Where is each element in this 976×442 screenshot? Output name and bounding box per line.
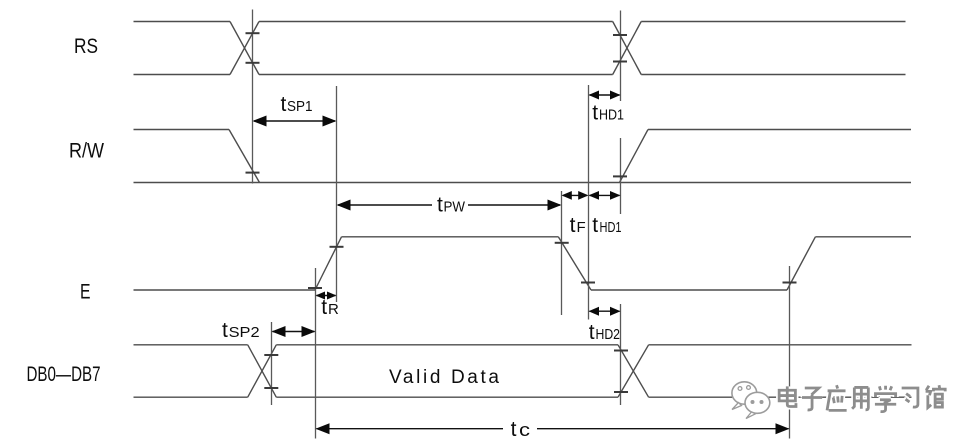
svg-text:Valid Data: Valid Data (389, 367, 499, 388)
node tick RS X2 upper (613, 34, 627, 36)
node tSP2 left arrowhead (272, 326, 286, 337)
wire RS top-left rail (134, 21, 231, 23)
node tick DB X2 lower (614, 391, 628, 393)
wire DB top-mid rail (276, 344, 618, 346)
wire RW rising edge (620, 130, 649, 183)
node tick RW fall (246, 172, 260, 174)
node tHD1 upper left arrowhead (589, 91, 600, 100)
node tHD2 right arrowhead (610, 307, 621, 316)
node V8 measure line x=271.3 (271, 322, 273, 405)
node tR right arrowhead (327, 292, 337, 300)
wire DB crossover 2 falling (618, 345, 649, 397)
wire DB bottom-right rail (649, 396, 912, 398)
node tick RS X1 upper (246, 32, 260, 34)
node tick E rise1 bottom (308, 287, 322, 289)
wire DB bottom-left rail (134, 396, 248, 398)
wire RW top-right rail (648, 129, 911, 131)
svg-text:R: R (328, 301, 339, 318)
svg-text:PW: PW (444, 199, 466, 216)
svg-text:HD1: HD1 (599, 107, 624, 124)
svg-text:F: F (577, 219, 586, 236)
svg-text:t: t (570, 214, 576, 237)
wire DB top-left rail (134, 344, 248, 346)
wire tR arrow shaft (317, 295, 336, 297)
wire E rising edge 2 (787, 237, 815, 290)
wire RS bottom-mid rail (259, 74, 613, 76)
wire tC arrow shaft right (537, 428, 789, 430)
wire tC arrow shaft left (317, 428, 504, 430)
node tick RS X1 lower (246, 62, 260, 64)
wire tPW arrow shaft right (468, 204, 560, 206)
node tPW right arrowhead (548, 200, 562, 211)
wire tHD1 lower arrow shaft (590, 194, 620, 196)
node V7 measure line x=789.5 (789, 266, 791, 439)
wire RS bottom-right rail (641, 74, 905, 76)
wire RS crossover 1 falling (230, 22, 259, 75)
node V5 measure line x=588 (588, 85, 590, 320)
svg-text:R/W: R/W (69, 140, 104, 163)
wire E high rail 2 (815, 236, 911, 238)
wire DB top-right rail (649, 344, 912, 346)
wire tF arrow shaft (563, 194, 587, 196)
node tick RW rise (613, 175, 627, 177)
node tHD1 upper right arrowhead (610, 91, 621, 100)
svg-text:RS: RS (74, 35, 98, 58)
node tick E rise1 top (330, 246, 344, 248)
node tick E fall top (555, 242, 569, 244)
wire RW bottom rail (134, 182, 912, 184)
node tC right arrowhead (776, 423, 790, 434)
node V2 measure line x=336.5 (336, 86, 338, 302)
node tSP1 left arrowhead (253, 116, 267, 127)
wire RS top-right rail (641, 21, 905, 23)
svg-text:t: t (222, 319, 228, 342)
wire tHD2 arrow shaft (590, 310, 620, 312)
wire RS crossover 2 falling (613, 22, 642, 75)
wire RS crossover 1 rising (230, 22, 259, 75)
svg-text:SP2: SP2 (229, 324, 260, 341)
svg-text:t: t (511, 418, 517, 441)
svg-text:t: t (592, 102, 598, 125)
node tHD2 left arrowhead (589, 307, 600, 316)
node tSP2 right arrowhead (302, 326, 316, 337)
wire E high rail 1 (342, 236, 559, 238)
node V1 measure line x=252.5 (252, 10, 254, 184)
node tF left arrowhead (562, 191, 572, 200)
svg-text:DB0—DB7: DB0—DB7 (27, 363, 101, 386)
wire DB crossover 1 rising (248, 345, 277, 397)
svg-text:SP1: SP1 (287, 98, 313, 115)
node tick DB X1 lower (264, 387, 278, 389)
node tR left arrowhead (316, 292, 326, 300)
node tick E rise2 (783, 282, 797, 284)
wire RS top-mid rail (259, 21, 613, 23)
node V6 measure line x=620 (620, 11, 622, 102)
wire tPW arrow shaft left (338, 204, 432, 206)
wire DB crossover 2 rising (618, 345, 649, 397)
wire E low-left rail (134, 289, 316, 291)
node V3 measure line x=315 (315, 268, 317, 439)
node tHD1 lower right arrowhead (610, 191, 621, 200)
node tC left arrowhead (316, 423, 330, 434)
node tSP1 right arrowhead (323, 116, 337, 127)
svg-text:E: E (80, 281, 91, 304)
wire RS crossover 2 rising (613, 22, 642, 75)
node tF right arrowhead (578, 191, 588, 200)
node tick E fall bottom (581, 282, 595, 284)
svg-text:HD2: HD2 (596, 326, 621, 343)
node V4 measure line x=561.7 (561, 191, 563, 315)
wire DB bottom-mid rail (276, 396, 618, 398)
node tick DB X1 upper (264, 354, 278, 356)
node tick DB X2 upper (614, 350, 628, 352)
node tick RS X2 lower (613, 61, 627, 63)
svg-text:c: c (519, 420, 530, 440)
node tHD1 lower left arrowhead (589, 191, 600, 200)
wire E rising edge 1 (315, 237, 342, 290)
wire RW top-left rail (134, 129, 230, 131)
wire RS bottom-left rail (134, 74, 231, 76)
svg-text:t: t (321, 296, 327, 319)
wire tSP2 arrow shaft (273, 331, 315, 333)
wire RW falling edge (229, 130, 260, 183)
svg-text:t: t (437, 194, 443, 217)
node tPW left arrowhead (337, 200, 351, 211)
watermark icon chat bubbles (732, 382, 770, 419)
svg-text:t: t (281, 93, 287, 116)
svg-text:t: t (592, 214, 598, 237)
wire tSP1 arrow shaft (254, 120, 335, 122)
wire tHD1 upper arrow shaft (590, 94, 620, 96)
svg-text:HD1: HD1 (600, 219, 622, 236)
wire E low-mid rail (591, 289, 787, 291)
wire DB crossover 1 falling (248, 345, 277, 397)
wire E falling edge (558, 237, 591, 290)
svg-text:t: t (589, 321, 595, 344)
